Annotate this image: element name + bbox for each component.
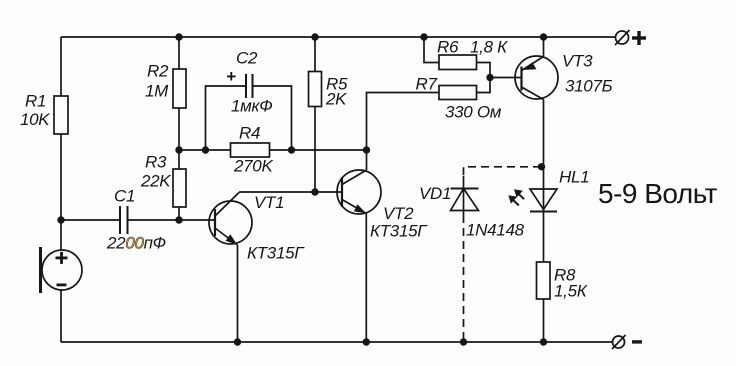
svg-text:КТ315Г: КТ315Г (247, 244, 305, 263)
wire bottom rail (61, 341, 613, 343)
diode VD1 (451, 176, 479, 215)
label R4 value (233, 124, 273, 176)
svg-text:270K: 270K (233, 157, 273, 176)
label VT1 type (247, 193, 305, 263)
label R5 value (325, 75, 348, 109)
wire left vertical upper (60, 37, 62, 96)
wire mic to C1 (61, 219, 120, 221)
wire dashed VD1 bottom (463, 215, 465, 342)
wire VT3 emitter up (543, 37, 545, 57)
label R2 value (145, 62, 169, 101)
wire C1 to VT1 base (128, 219, 216, 221)
resistor R8 (537, 262, 551, 299)
transistor VT2 (337, 170, 381, 214)
svg-text:HL1: HL1 (559, 168, 589, 187)
svg-text:VT2: VT2 (383, 204, 414, 223)
svg-text:2K: 2K (325, 90, 347, 109)
wire VT1 emitter down (237, 245, 239, 342)
resistor R4 (231, 143, 270, 157)
svg-text:C2: C2 (236, 49, 258, 68)
svg-text:5-9 Вольт: 5-9 Вольт (598, 178, 718, 209)
wire dashed VD1 top (464, 167, 542, 178)
transistor VT1 (209, 193, 252, 246)
label R7 value (416, 75, 502, 122)
svg-text:КТ315Г: КТ315Г (370, 222, 428, 241)
svg-text:22K: 22K (140, 172, 171, 191)
label plus (632, 31, 646, 45)
svg-text:1M: 1M (145, 82, 169, 101)
svg-text:+: + (226, 67, 236, 86)
svg-text:10K: 10K (20, 110, 50, 129)
svg-text:C1: C1 (114, 187, 135, 206)
label R8 value (554, 266, 588, 301)
wire VT2 collector up to R7 (367, 93, 440, 171)
wire feedback row (179, 149, 367, 151)
label VT2 type (370, 204, 428, 241)
label VD1 type (419, 184, 525, 240)
svg-text:2200пФ: 2200пФ (106, 234, 166, 253)
svg-text:R2: R2 (147, 62, 169, 81)
wire LED to R8 (543, 212, 545, 263)
svg-text:1,8 К: 1,8 К (470, 38, 508, 57)
microphone BM1 (41, 247, 83, 293)
resistor R3 (173, 169, 186, 207)
label R3 value (140, 153, 171, 191)
svg-text:R7: R7 (416, 75, 438, 94)
label supply voltage (598, 178, 718, 209)
resistor R1 (54, 96, 68, 134)
wire R2 to R3 (178, 108, 180, 169)
wire R6 R7 join (477, 63, 522, 93)
label HL1 (559, 168, 589, 187)
svg-text:1,5К: 1,5К (554, 282, 588, 301)
svg-text:3107Б: 3107Б (565, 77, 613, 96)
wire top rail (61, 36, 616, 38)
terminal plus (615, 30, 630, 45)
resistor R5 (309, 72, 322, 107)
label C1 value (106, 187, 166, 253)
wire VT3 collector down (543, 100, 545, 190)
resistor R2 (173, 69, 186, 108)
label R6 value (437, 38, 508, 57)
label C2 value (226, 49, 272, 116)
led HL1 (508, 189, 557, 212)
svg-text:1N4148: 1N4148 (466, 221, 525, 240)
svg-text:1мкФ: 1мкФ (231, 97, 272, 116)
wire R3 bottom (178, 207, 180, 220)
wire R8 bottom (543, 299, 545, 342)
svg-text:R3: R3 (145, 153, 167, 172)
terminal minus (612, 335, 626, 349)
svg-text:VT1: VT1 (254, 193, 284, 212)
svg-text:VD1: VD1 (419, 184, 451, 203)
svg-text:330 Ом: 330 Ом (445, 103, 502, 122)
svg-text:VT3: VT3 (562, 52, 593, 71)
svg-text:R1: R1 (25, 92, 46, 111)
capacitor C2 (246, 74, 253, 98)
wire R6 left (424, 37, 439, 63)
wire R5 bottom (314, 107, 316, 193)
label R1 value (20, 92, 50, 130)
wire C2 right leg (253, 86, 292, 150)
label minus (632, 340, 642, 343)
svg-text:R6: R6 (437, 38, 459, 57)
resistor R6 (439, 55, 477, 70)
wire VT1 collector to VT2 base (239, 191, 342, 193)
wire left vertical lower (60, 290, 62, 342)
capacitor C1 (120, 206, 128, 234)
svg-text:R4: R4 (239, 124, 260, 143)
wire VT2 emitter down (365, 214, 367, 343)
wire left vertical middle (60, 134, 62, 250)
transistor VT3 (515, 56, 558, 100)
wire R5 top (314, 37, 316, 72)
wire R2 top (178, 37, 180, 69)
wire C2 left leg (206, 86, 247, 150)
resistor R7 (439, 86, 477, 100)
label VT3 type (562, 52, 613, 96)
